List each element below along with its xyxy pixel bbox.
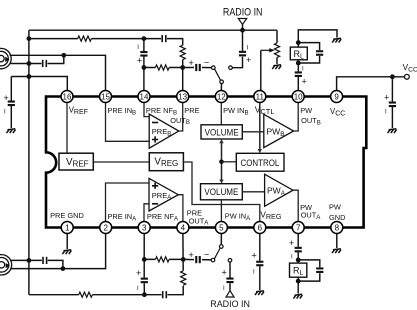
svg-text:10: 10 xyxy=(294,93,303,102)
electrolytic capacitor C3 on pin14 column xyxy=(137,39,147,91)
ground under C6 xyxy=(7,129,16,133)
svg-text:9: 9 xyxy=(334,93,339,102)
wire node to coupling cap C13 xyxy=(183,258,211,261)
svg-text:16: 16 xyxy=(63,93,72,102)
svg-text:+: + xyxy=(384,93,389,103)
capacitor C7 parallel with RL (top) xyxy=(298,43,323,63)
wire RL top to ground xyxy=(298,30,337,43)
node dot bus y260.4 xyxy=(27,258,32,263)
RADIO IN terminal triangle (bottom) xyxy=(226,291,234,297)
switch SW2 left circle xyxy=(211,258,215,262)
wire C14 to radio triangle xyxy=(229,283,231,290)
node dot x144.4 y294.7 xyxy=(142,292,147,297)
pin 8 xyxy=(331,222,343,234)
wire radio throw to cap C5 xyxy=(232,57,242,68)
wire RL bottom to ground xyxy=(297,281,299,293)
wire VCTL pin 11 arrow into CONTROL xyxy=(258,103,262,154)
electrolytic capacitor C16 output A xyxy=(289,234,302,261)
node dot x144.3 y259.4 xyxy=(142,257,147,262)
svg-text:VOLUME: VOLUME xyxy=(204,187,238,197)
electrolytic capacitor C8 output B xyxy=(295,63,307,91)
RADIO IN terminal triangle (top) xyxy=(238,19,246,25)
pin 16 xyxy=(61,91,73,103)
svg-text:+: + xyxy=(137,56,142,66)
capacitor C1 on jack line xyxy=(42,60,47,67)
electrolytic capacitor C5 radio input xyxy=(239,46,251,66)
potentiometer VR1 xyxy=(261,30,280,64)
internal wire pin16 to VREF block xyxy=(66,103,68,156)
svg-text:VOLUME: VOLUME xyxy=(205,127,239,137)
wire pin14 to PRE_B - input xyxy=(144,103,149,117)
svg-text:PRE INB: PRE INB xyxy=(107,106,136,116)
wire VREF to VREG xyxy=(94,161,150,163)
left vertical bus wire xyxy=(28,30,30,295)
svg-text:+: + xyxy=(246,55,251,65)
bottom feedback wire y294.7 xyxy=(29,286,183,295)
switch SW1 radio throw circle xyxy=(229,66,233,70)
wire switch to pin 12 xyxy=(220,84,222,91)
svg-text:1: 1 xyxy=(65,224,70,233)
resistor R1 xyxy=(78,36,92,41)
capacitor C11 bottom feedback xyxy=(162,291,167,298)
ground under RL bottom xyxy=(293,294,302,298)
node dot radio at y30.2 xyxy=(240,28,245,33)
svg-text:8: 8 xyxy=(335,224,340,233)
wire pin2 to PRE_A + input xyxy=(106,183,150,222)
wire VOLUME A to pin 5 xyxy=(220,200,222,222)
svg-text:+: + xyxy=(136,268,141,278)
pin 12 xyxy=(215,91,227,103)
wire jack second terminal line xyxy=(10,55,64,63)
wire VOLUME B to PW_B xyxy=(242,131,263,133)
wire jack J2 upper line with cap xyxy=(10,260,63,268)
load resistor RL (bottom) with dots xyxy=(290,258,307,284)
op-amp PRE_B xyxy=(149,114,179,148)
pin 9 xyxy=(331,91,343,103)
wire jack J2 lower line to pin 2 xyxy=(10,234,106,269)
node dot bus y76.5 xyxy=(27,74,32,79)
node dot VCC line xyxy=(390,74,395,79)
wire radio throw down to cap C14 xyxy=(229,262,231,277)
resistor R3 between pin14 and pin13 columns xyxy=(144,65,183,70)
wire PW_A output to pin 7 xyxy=(293,190,298,221)
op-amp PW_B xyxy=(264,114,294,147)
wire PRE_B output to pin 13 xyxy=(179,103,183,132)
VOLUME block B xyxy=(201,125,242,139)
wire pin 4 column xyxy=(182,234,184,271)
svg-text:14: 14 xyxy=(140,93,149,102)
pin 7 xyxy=(292,222,304,234)
svg-text:15: 15 xyxy=(101,93,110,102)
svg-text:+: + xyxy=(189,250,194,260)
svg-text:+: + xyxy=(302,77,307,87)
wire jack tip to pin 15 xyxy=(10,55,106,90)
svg-text:RADIO IN: RADIO IN xyxy=(210,299,250,309)
wire pin12 to VOLUME B xyxy=(220,103,222,125)
svg-text:7: 7 xyxy=(296,224,301,233)
wire pin15 to PRE_B + input xyxy=(106,103,150,142)
svg-text:RADIO IN: RADIO IN xyxy=(223,7,263,19)
wire VREG to pin 6 xyxy=(184,162,260,222)
svg-text:+: + xyxy=(4,93,9,103)
svg-text:3: 3 xyxy=(142,224,147,233)
svg-text:−: − xyxy=(204,250,209,260)
pin 2 xyxy=(100,222,112,234)
node dot bus y63.5 xyxy=(27,61,32,66)
electrolytic capacitor C14 radio input (bottom) xyxy=(222,268,234,293)
svg-text:+: + xyxy=(189,58,194,68)
svg-text:PW: PW xyxy=(329,203,341,212)
node dot bus y38.6 xyxy=(27,36,32,41)
wire line C bus to pin 16 xyxy=(11,77,67,91)
input jack J2 (bottom left) xyxy=(0,255,12,275)
node dot x183.2 y259.4 xyxy=(181,257,186,262)
svg-text:+: + xyxy=(222,268,227,278)
electrolytic capacitor C12 pin3 column xyxy=(136,234,148,295)
capacitor C2 feedback xyxy=(161,35,166,42)
resistor R6 between pin3 and pin4 columns xyxy=(144,257,183,262)
wire pin 1 to ground xyxy=(66,234,68,250)
pin 14 xyxy=(138,91,150,103)
pin 5 xyxy=(215,222,227,234)
svg-text:CONTROL: CONTROL xyxy=(241,158,280,168)
svg-text:PRE GND: PRE GND xyxy=(50,211,84,220)
pin 3 xyxy=(138,222,150,234)
svg-text:PW: PW xyxy=(300,106,312,115)
switch SW2 radio throw circle xyxy=(228,259,232,263)
top feedback wire y30.2 to potentiometer xyxy=(29,29,277,31)
VREF block xyxy=(59,153,93,170)
svg-text:−: − xyxy=(204,58,209,68)
wire R1 to node xyxy=(91,38,161,40)
ground under C9 xyxy=(388,129,397,133)
resistor R2 vertical on pin13 column xyxy=(180,45,185,59)
capacitor C10 on J2 line xyxy=(42,257,47,264)
switch SW2 lever xyxy=(214,248,220,259)
wire R2 to node xyxy=(182,60,184,91)
input jack J1 (top left) xyxy=(0,48,11,68)
pin 4 xyxy=(177,222,189,234)
svg-text:PRE: PRE xyxy=(184,106,199,115)
CONTROL block xyxy=(236,153,284,171)
electrolytic capacitor C13 coupling (bottom) xyxy=(189,250,210,264)
svg-text:4: 4 xyxy=(181,224,186,233)
svg-text:6: 6 xyxy=(258,224,263,233)
ground under potentiometer xyxy=(272,65,281,69)
svg-text:11: 11 xyxy=(256,93,265,102)
pin 6 xyxy=(254,222,266,234)
pin 13 xyxy=(177,91,189,103)
svg-text:12: 12 xyxy=(217,93,226,102)
node dot J2 join xyxy=(61,266,66,271)
wire node to coupling cap C4 xyxy=(183,67,212,69)
wire C2 to pin13 column xyxy=(167,39,183,46)
svg-text:VREG: VREG xyxy=(154,156,178,168)
VREG block xyxy=(149,153,183,171)
pin 1 xyxy=(61,222,73,234)
svg-text:13: 13 xyxy=(178,93,187,102)
electrolytic capacitor C15 pin 6 to ground xyxy=(252,234,264,291)
capacitor C17 parallel with RL (bottom) xyxy=(298,260,323,281)
control double-arrow line between VOLUME blocks xyxy=(219,139,236,184)
load resistor RL (top) with dots xyxy=(290,40,307,65)
IC U1 body outline with pin-1 notch xyxy=(46,97,366,228)
pin 10 xyxy=(292,91,304,103)
svg-text:VREG: VREG xyxy=(260,211,281,222)
resistor R5 vertical pin4 column xyxy=(181,271,186,285)
electrolytic capacitor C9 VCC decoupling xyxy=(384,77,396,128)
wire y38.6 bus to resistor R1 xyxy=(29,38,78,40)
node dot x143.9 y67.5 xyxy=(142,65,147,70)
wire pin 5 to switch xyxy=(220,234,222,245)
svg-text:5: 5 xyxy=(219,224,224,233)
node dot x182.7 y67.5 xyxy=(180,65,185,70)
wire C5 up to radio line xyxy=(242,25,244,51)
ground under pin 6 cap xyxy=(255,291,264,295)
VCC terminal circle xyxy=(405,74,410,79)
svg-text:+: + xyxy=(252,251,257,261)
svg-text:VREF: VREF xyxy=(66,157,89,169)
node dot x143.9 y38.6 xyxy=(142,36,147,41)
wire pin3 to PRE_A - input xyxy=(144,204,149,222)
switch SW1 pole circle xyxy=(212,66,216,70)
svg-text:GND: GND xyxy=(329,213,345,222)
switch SW1 common circle above pin 12 xyxy=(220,80,224,84)
wire PRE_A output to pin 4 xyxy=(178,195,183,222)
svg-text:VCTL: VCTL xyxy=(255,105,275,117)
wire pin 8 to ground xyxy=(336,234,338,249)
wire PW_B output to pin 10 xyxy=(294,103,299,132)
svg-text:2: 2 xyxy=(103,224,108,233)
wire pot wiper to pin 11 xyxy=(260,50,262,90)
node dot jack line join xyxy=(61,53,66,58)
electrolytic capacitor C6 with ground (far left) xyxy=(4,77,15,129)
wire VOLUME A to PW_A xyxy=(242,191,264,193)
resistor R4 bottom xyxy=(79,292,93,297)
switch SW2 common circle below pin 5 xyxy=(220,245,224,249)
wire pin 9 to VCC terminal xyxy=(337,77,405,91)
svg-text:+: + xyxy=(289,238,294,248)
switch SW1 lever xyxy=(215,69,221,80)
pin 15 xyxy=(100,91,112,103)
op-amp PRE_A xyxy=(149,178,178,211)
ground under pin 8 xyxy=(332,249,341,253)
pin 11 xyxy=(254,91,266,103)
electrolytic capacitor C4 coupling xyxy=(189,58,210,72)
VOLUME block A xyxy=(201,184,243,200)
op-amp PW_A xyxy=(265,174,293,206)
ground under pin 1 xyxy=(62,250,71,254)
ground top right of RL xyxy=(332,38,341,42)
